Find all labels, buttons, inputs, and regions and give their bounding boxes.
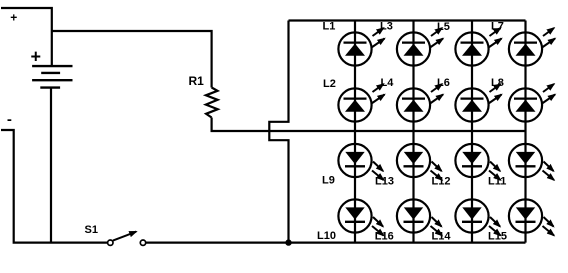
svg-text:L2: L2 — [323, 78, 336, 90]
svg-text:L12: L12 — [432, 176, 451, 188]
svg-text:L1: L1 — [323, 21, 336, 33]
svg-text:L3: L3 — [380, 21, 393, 33]
svg-text:L8: L8 — [491, 77, 504, 89]
svg-text:+: + — [10, 11, 17, 25]
svg-text:L14: L14 — [432, 230, 452, 242]
svg-text:+: + — [31, 47, 42, 67]
svg-text:L5: L5 — [437, 21, 450, 33]
svg-text:L10: L10 — [317, 230, 336, 242]
svg-text:L15: L15 — [488, 230, 507, 242]
svg-text:L9: L9 — [322, 175, 335, 187]
svg-text:S1: S1 — [85, 224, 98, 236]
svg-text:L13: L13 — [375, 176, 394, 188]
svg-text:L4: L4 — [381, 77, 395, 89]
svg-text:L6: L6 — [437, 77, 450, 89]
svg-text:L11: L11 — [488, 176, 506, 188]
svg-text:R1: R1 — [189, 74, 205, 88]
svg-text:L7: L7 — [491, 21, 504, 33]
svg-text:L16: L16 — [375, 230, 394, 242]
